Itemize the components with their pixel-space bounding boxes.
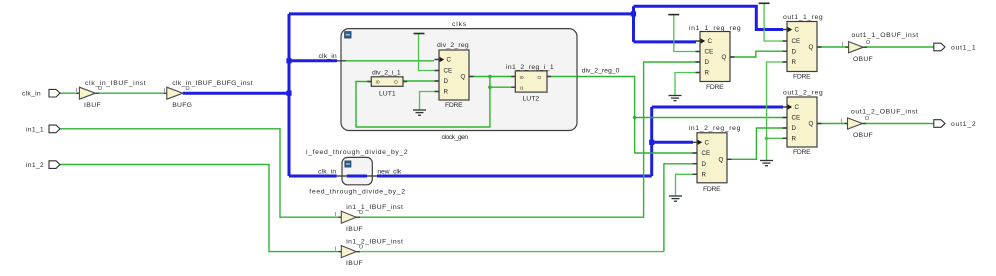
- svg-text:R: R: [702, 172, 707, 179]
- svg-text:FDRE: FDRE: [706, 84, 724, 91]
- wire net div_2_reg_0 branch to out1_2_reg CE: [635, 117, 787, 119]
- wire net clks vertical trunk x=289: [288, 14, 291, 176]
- svg-text:in1_1_IBUF_inst: in1_1_IBUF_inst: [346, 204, 403, 211]
- pin stub clk_in of feed_through: [337, 175, 347, 177]
- svg-text:in1_2_reg_reg: in1_2_reg_reg: [689, 125, 741, 132]
- svg-text:CE: CE: [705, 49, 714, 56]
- label div_2_i_1: [372, 69, 401, 76]
- svg-text:C: C: [705, 140, 710, 147]
- svg-text:R: R: [792, 59, 797, 66]
- svg-text:C: C: [447, 57, 452, 64]
- svg-text:I: I: [842, 42, 843, 48]
- flip-flop out1_1_reg FDRE: [783, 22, 822, 72]
- svg-text:C: C: [795, 104, 800, 111]
- wire const0 branch to out1_2_reg R: [767, 137, 788, 139]
- wire net div_2_reg_0 branch to in1_2_reg_reg CE: [635, 152, 697, 154]
- wire const1 to in1_1_reg_reg CE: [674, 15, 700, 52]
- wire net new_clk vertical x=651.7: [650, 107, 653, 176]
- svg-text:in1_1_reg_reg: in1_1_reg_reg: [689, 25, 741, 32]
- svg-text:I0: I0: [376, 80, 380, 86]
- ground div_2_reg R: [413, 110, 426, 115]
- wire net in1_2_IBUF to in1_2_reg_reg D: [356, 164, 697, 252]
- pin label clk_in of feed_through: [318, 168, 337, 175]
- svg-text:clk_in: clk_in: [318, 168, 337, 175]
- label in1_2_IBUF_inst: [346, 238, 403, 245]
- wire IBUF out to BUFG in (net clk_in_IBUF): [95, 92, 166, 94]
- svg-text:LUT2: LUT2: [523, 95, 540, 102]
- buffer IBUF clk_in_IBUF_inst: [76, 86, 102, 99]
- label i_feed_through_divide_by_2: [306, 149, 408, 156]
- wire clk_in port to IBUF: [60, 92, 79, 94]
- wire net in1_1_IBUF to in1_1_reg_reg D: [356, 62, 700, 217]
- svg-text:CE: CE: [702, 150, 711, 157]
- junction net div_2 at I1 branch: [488, 85, 492, 89]
- wire net new_clk to in1_2_reg_reg C: [652, 141, 693, 144]
- wire net clks: BUFG out to vertical trunk: [183, 92, 289, 95]
- svg-text:div_2_reg_0: div_2_reg_0: [582, 68, 620, 75]
- label port out1_1: [951, 45, 976, 52]
- svg-text:clk_in_IBUF_BUFG_inst: clk_in_IBUF_BUFG_inst: [172, 80, 253, 87]
- buffer IBUF in1_2_IBUF_inst: [335, 244, 364, 257]
- lut div_2_i_1 LUT1: [367, 77, 407, 87]
- svg-text:D: D: [792, 125, 797, 132]
- svg-text:OBUF: OBUF: [853, 132, 873, 139]
- svg-text:in1_2_reg_i_1: in1_2_reg_i_1: [506, 64, 554, 71]
- label out1_2_OBUF_inst: [851, 109, 918, 116]
- svg-text:Q: Q: [809, 121, 814, 128]
- power vcc in1_1_reg_reg: [668, 14, 679, 16]
- svg-text:R: R: [444, 89, 449, 96]
- label div_2_reg_0 net: [582, 68, 620, 75]
- svg-text:div_2_i_1: div_2_i_1: [372, 69, 401, 76]
- port clk_in: [49, 89, 60, 97]
- svg-text:in1_1: in1_1: [26, 126, 44, 133]
- label port in1_1: [26, 126, 44, 133]
- wire net out1_2_reg Q to OBUF: [817, 123, 848, 125]
- buffer IBUF in1_1_IBUF_inst: [335, 210, 364, 223]
- wire net div_2_reg_0 from clock_gen output: [577, 77, 635, 154]
- svg-text:I: I: [335, 212, 336, 218]
- svg-text:Q: Q: [461, 74, 466, 81]
- junction net div_2_reg_0: [633, 116, 637, 120]
- wire const0 in1_2_reg_reg R to ground: [676, 174, 698, 196]
- svg-text:in1_2_IBUF_inst: in1_2_IBUF_inst: [346, 238, 403, 245]
- wire const0 div_2_reg R to ground: [420, 92, 440, 111]
- label OBUF of out1_1_OBUF_inst: [853, 56, 873, 63]
- svg-text:new_clk: new_clk: [377, 168, 401, 175]
- svg-text:CE: CE: [444, 68, 453, 75]
- pin stub new_clk of feed_through: [367, 175, 377, 177]
- label in1_2_reg_i_1: [506, 64, 554, 71]
- svg-text:OBUF: OBUF: [853, 56, 873, 63]
- label clks net: [452, 21, 467, 28]
- svg-text:IBUF: IBUF: [346, 226, 363, 233]
- wire net new_clk to out1_2_reg C: [652, 106, 783, 109]
- icon expand feed_through: [345, 161, 351, 167]
- wire net clks stub into clock_gen clk_in pin: [289, 59, 337, 62]
- svg-text:O: O: [394, 80, 398, 86]
- wire net out1_1_reg Q to OBUF: [817, 46, 849, 48]
- label FDRE of in1_1_reg_reg: [706, 84, 724, 91]
- svg-text:I: I: [76, 88, 77, 94]
- flip-flop in1_1_reg_reg FDRE: [696, 32, 735, 82]
- label in1_1_IBUF_inst: [346, 204, 403, 211]
- svg-text:out1_2_reg: out1_2_reg: [783, 89, 823, 96]
- svg-text:i_feed_through_divide_by_2: i_feed_through_divide_by_2: [306, 149, 408, 156]
- svg-text:clk_in: clk_in: [22, 91, 41, 98]
- wire net div_2 feedback vertical: [356, 77, 490, 128]
- svg-text:C: C: [795, 27, 800, 34]
- label FDRE of out1_2_reg: [793, 149, 811, 156]
- hierarchical block clock_gen: [341, 29, 577, 131]
- svg-text:CE: CE: [792, 115, 801, 122]
- ground shared out1_1_reg/out1_2_reg: [760, 161, 773, 166]
- svg-text:D: D: [792, 48, 797, 55]
- buffer BUFG clk_in_IBUF_BUFG_inst: [164, 86, 190, 99]
- svg-text:FDRE: FDRE: [793, 73, 811, 80]
- junction const0 ground net: [765, 137, 769, 141]
- power vcc div_2_reg: [414, 33, 425, 35]
- svg-text:clk_in_IBUF_inst: clk_in_IBUF_inst: [85, 80, 146, 87]
- wire const1 to div_2_reg CE: [419, 34, 440, 71]
- label port clk_in: [22, 91, 41, 98]
- label clock_gen: [442, 134, 469, 141]
- junction net new_clk: [649, 140, 654, 145]
- label in1_1_reg_reg: [689, 25, 741, 32]
- svg-text:D: D: [705, 59, 710, 66]
- label port out1_2: [951, 121, 976, 128]
- svg-text:O: O: [866, 40, 870, 46]
- wire net clks top horizontal y=13.9: [289, 12, 634, 15]
- wire const1 to out1_1_reg CE: [764, 3, 787, 41]
- wire net div_2 branch to LUT2 I1: [490, 86, 515, 88]
- svg-text:IBUF: IBUF: [84, 102, 101, 109]
- svg-text:O: O: [865, 116, 869, 122]
- wire net in1_2 from port to IBUF: [60, 165, 341, 252]
- label div_2_reg: [437, 42, 469, 49]
- pin label clk_in of clock_gen: [319, 53, 338, 60]
- ground in1_2_reg_reg R: [669, 196, 682, 201]
- svg-text:I: I: [164, 88, 165, 94]
- power vcc out1_1_reg: [759, 2, 770, 4]
- svg-text:FDRE: FDRE: [703, 186, 721, 193]
- flip-flop out1_2_reg FDRE: [783, 97, 822, 147]
- label out1_1_OBUF_inst: [852, 32, 919, 39]
- svg-text:C: C: [708, 38, 713, 45]
- svg-text:IBUF: IBUF: [346, 260, 363, 267]
- label FDRE of in1_2_reg_reg: [703, 186, 721, 193]
- svg-text:D: D: [702, 161, 707, 168]
- svg-text:out1_1_reg: out1_1_reg: [783, 14, 823, 21]
- wire net div_2_i_1 LUT1 out to div_2_reg D: [403, 80, 439, 82]
- wire clock_gen internal clk_in to div_2_reg C: [346, 60, 434, 62]
- flip-flop in1_2_reg_reg FDRE: [693, 133, 732, 183]
- svg-text:O: O: [538, 75, 542, 81]
- junction net clks at clock_gen stub: [286, 58, 291, 63]
- svg-text:Q: Q: [722, 54, 727, 61]
- wire const0 in1_1_reg_reg R to ground: [675, 73, 700, 96]
- port out1_2: [934, 120, 945, 128]
- label FDRE of out1_1_reg: [793, 73, 811, 80]
- wire net out1_1_OBUF to port: [863, 46, 934, 48]
- wire net clks y=41.9 to in1_1_reg_reg C: [634, 40, 697, 43]
- label IBUF of clk_in_IBUF_inst: [84, 102, 101, 109]
- svg-text:Q: Q: [809, 44, 814, 51]
- label clk_in_IBUF_BUFG_inst: [172, 80, 253, 87]
- svg-text:out1_2: out1_2: [951, 121, 976, 128]
- svg-text:in1_2: in1_2: [26, 162, 44, 169]
- wire const0 out1_1_reg R / out1_2_reg R shared ground net: [767, 62, 788, 161]
- wire net clks right vertical x=633.5: [632, 6, 635, 42]
- junction net clks top right: [631, 11, 636, 16]
- svg-text:feed_through_divide_by_2: feed_through_divide_by_2: [309, 189, 405, 196]
- icon collapse clock_gen: [345, 32, 352, 39]
- wire net div_2 feedback: Q to LUT2 I0 and down: [469, 76, 515, 78]
- wire net in1_2_reg_reg Q to out1_2_reg D: [727, 128, 787, 159]
- port in1_1: [49, 125, 60, 133]
- wire net in1_1_reg_reg Q to out1_1_reg D: [730, 51, 787, 57]
- port out1_1: [934, 43, 945, 51]
- svg-text:clks: clks: [452, 21, 467, 28]
- label IBUF of in1_2_IBUF_inst: [346, 260, 363, 267]
- svg-text:clk_in: clk_in: [319, 53, 338, 60]
- hierarchical block feed_through_divide_by_2: [342, 157, 372, 184]
- svg-text:I0: I0: [520, 75, 524, 81]
- svg-text:LUT1: LUT1: [379, 90, 396, 97]
- label IBUF of in1_1_IBUF_inst: [346, 226, 363, 233]
- port in1_2: [49, 161, 60, 169]
- svg-text:out1_2_OBUF_inst: out1_2_OBUF_inst: [851, 109, 918, 116]
- wire feed_through internal net: [347, 175, 367, 178]
- svg-text:BUFG: BUFG: [172, 102, 192, 109]
- pin label new_clk of feed_through: [377, 168, 401, 175]
- label BUFG of clk_in_IBUF_BUFG_inst: [172, 102, 192, 109]
- label clk_in_IBUF_inst: [85, 80, 146, 87]
- flip-flop div_2_reg FDRE: [435, 50, 474, 100]
- wire net out1_2_OBUF to port: [863, 123, 934, 125]
- svg-text:out1_1_OBUF_inst: out1_1_OBUF_inst: [852, 32, 919, 39]
- svg-text:Q: Q: [719, 157, 724, 164]
- junction net div_2 at Q: [488, 75, 492, 79]
- label in1_2_reg_reg: [689, 125, 741, 132]
- svg-text:FDRE: FDRE: [793, 149, 811, 156]
- pin stub clk_in of clock_gen: [337, 60, 346, 62]
- svg-text:I: I: [335, 247, 336, 253]
- label FDRE of div_2_reg: [445, 102, 463, 109]
- label OBUF of out1_2_OBUF_inst: [853, 132, 873, 139]
- wires layer: [60, 3, 934, 251]
- svg-text:R: R: [705, 70, 710, 77]
- label LUT1 of div_2_i_1: [379, 90, 396, 97]
- buffer OBUF out1_2_OBUF_inst: [841, 116, 870, 129]
- svg-text:clock_gen: clock_gen: [442, 134, 469, 141]
- wire net LUT2 O to clock_gen boundary: [547, 76, 577, 78]
- svg-text:I: I: [841, 118, 842, 124]
- svg-text:CE: CE: [792, 38, 801, 45]
- wire net new_clk from feed_through to vertical x=651.7: [377, 175, 652, 178]
- svg-text:div_2_reg: div_2_reg: [437, 42, 469, 49]
- lut in1_2_reg_i_1 LUT2: [511, 71, 551, 92]
- wire net clks y=6.3 to out1_1_reg: [634, 6, 784, 29]
- ground in1_1_reg_reg R: [669, 96, 682, 101]
- label port in1_2: [26, 162, 44, 169]
- wire net in1_1 from port to IBUF: [60, 129, 341, 217]
- svg-text:out1_1: out1_1: [951, 45, 976, 52]
- buffer OBUF out1_1_OBUF_inst: [842, 40, 871, 53]
- label feed_through_divide_by_2: [309, 189, 405, 196]
- label LUT2 of in1_2_reg_i_1: [523, 95, 540, 102]
- svg-text:I1: I1: [520, 85, 524, 91]
- svg-text:R: R: [792, 136, 797, 143]
- label out1_1_reg: [783, 14, 823, 21]
- svg-text:D: D: [444, 78, 449, 85]
- wire net clks into feed_through clk_in: [289, 175, 337, 178]
- label out1_2_reg: [783, 89, 823, 96]
- svg-text:FDRE: FDRE: [445, 102, 463, 109]
- junction net clks at BUFG tap: [286, 91, 291, 96]
